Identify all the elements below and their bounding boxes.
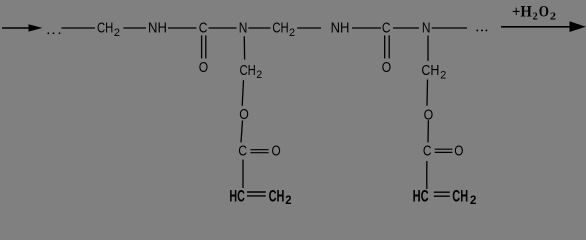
svg-text:N: N [422,20,431,37]
label CH2 (chain 1) [97,20,120,39]
svg-text:2: 2 [114,27,120,39]
double bond C=O vertical (unit 2) [385,35,390,58]
bond C to vinyl (unit 1) [242,160,244,188]
svg-text:HC: HC [229,187,245,206]
bond C to N (2) [393,27,419,29]
svg-text:O: O [382,59,392,76]
bond CH2 to O (unit 1) [242,80,243,106]
bond N to CH2 [248,27,270,29]
svg-text:HC: HC [413,187,429,206]
svg-text:C: C [199,20,208,37]
bond CH2 to NH [123,27,146,29]
double bond HC=CH2 (unit 2) [434,192,450,196]
ellipsis left [47,32,60,34]
svg-text:CH: CH [421,62,439,79]
svg-text:CH: CH [272,20,288,37]
svg-text:O: O [539,3,549,20]
label CH2 vinyl (unit 2) [452,187,476,208]
label +H2O2 [512,3,557,22]
svg-text:O: O [239,106,249,123]
svg-text:2: 2 [285,193,292,207]
svg-text:CH: CH [452,187,468,206]
label CH2 vinyl (unit 1) [269,187,292,208]
svg-text:C: C [423,143,432,160]
bond NH to C [168,27,197,29]
bond NH to C (2) [352,27,381,29]
arrow left [2,24,43,31]
label CH2 (chain 2) [272,20,295,39]
double bond C=O horizontal (unit 2) [435,149,453,152]
svg-text:2: 2 [440,69,446,81]
svg-text:O: O [272,142,281,159]
svg-text:NH: NH [331,20,350,37]
svg-text:2: 2 [289,27,295,39]
svg-text:CH: CH [240,62,256,79]
svg-text:+H: +H [512,3,532,20]
svg-text:CH: CH [269,187,285,206]
ellipsis right [476,29,487,31]
svg-text:C: C [238,142,247,159]
svg-text:2: 2 [256,69,262,81]
bond C to N [209,27,237,29]
reaction arrow right [501,21,586,32]
svg-text:2: 2 [533,10,539,22]
svg-text:N: N [239,20,248,37]
svg-text:CH: CH [97,20,113,37]
double bond C=O horizontal (unit 1) [250,150,268,153]
bond O to C (unit 2) [427,120,429,142]
svg-text:NH: NH [148,20,167,37]
svg-text:2: 2 [470,193,477,207]
double bond C=O vertical (unit 1) [202,35,206,58]
double bond HC=CH2 (unit 1) [247,192,266,196]
bond O to C (unit 1) [241,121,243,143]
label pendant CH2 (unit 1) [240,62,263,81]
svg-text:C: C [382,20,391,37]
bond CH2 to NH (2) [297,27,321,29]
bond ellipsis to CH2 [61,27,95,29]
bond CH2 to O (unit 2) [426,80,429,106]
bond N to ellipsis [432,27,467,29]
bond N to pendant CH2 (unit 1) [243,36,245,59]
label pendant CH2 (unit 2) [421,62,446,81]
svg-text:O: O [454,143,463,160]
bond N to pendant CH2 (unit 2) [427,36,429,61]
svg-text:2: 2 [550,10,557,22]
svg-text:O: O [199,59,209,76]
bond C to vinyl (unit 2) [426,161,428,189]
